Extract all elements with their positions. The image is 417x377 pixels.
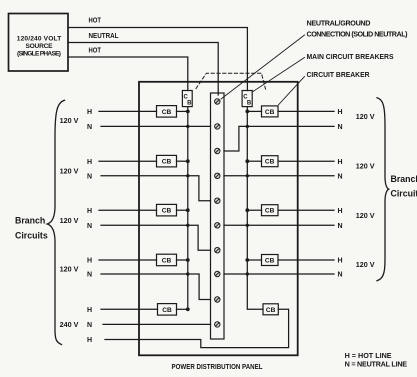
svg-text:B: B xyxy=(187,100,192,106)
svg-text:CB: CB xyxy=(265,208,275,215)
junction dots right bus xyxy=(245,110,249,276)
labels right 120V rows xyxy=(356,112,375,269)
svg-text:Circuits: Circuits xyxy=(15,230,48,240)
wire CB3L to left bus xyxy=(177,209,188,211)
bus screw terminals xyxy=(215,99,220,327)
main circuit breaker CB-B xyxy=(242,91,252,107)
neutral bus bar xyxy=(211,93,225,339)
wire CB5L to left bus xyxy=(177,308,188,310)
svg-text:CB: CB xyxy=(265,109,275,116)
label CB-A text xyxy=(184,94,193,106)
svg-text:120 V: 120 V xyxy=(60,116,79,125)
callout line neutral-ground xyxy=(221,35,305,99)
brace right branch circuits xyxy=(377,98,389,281)
svg-text:120 V: 120 V xyxy=(356,112,375,121)
svg-text:CONNECTION (SOLID NEUTRAL): CONNECTION (SOLID NEUTRAL) xyxy=(307,30,409,39)
svg-text:CB: CB xyxy=(162,208,172,215)
svg-text:H: H xyxy=(87,208,92,215)
svg-text:H: H xyxy=(338,208,343,215)
main circuit breaker CB-A xyxy=(182,91,192,107)
svg-text:Branch: Branch xyxy=(15,215,45,225)
svg-text:N: N xyxy=(87,173,92,180)
svg-text:CB: CB xyxy=(265,159,275,166)
wire right hot bus xyxy=(247,107,263,310)
wire R1 hot out xyxy=(278,110,334,112)
svg-text:H: H xyxy=(87,159,92,166)
wire right bus to CB3R xyxy=(247,209,261,211)
wire L5 second hot under bus to CB5R xyxy=(105,309,289,347)
wire R3 hot out xyxy=(278,209,334,211)
label CB-B text xyxy=(243,94,252,106)
wire L5 neutral to bus screw xyxy=(103,323,211,325)
wire R2 hot out xyxy=(278,160,334,162)
branch circuit breaker CB3L xyxy=(157,204,177,216)
svg-text:N: N xyxy=(338,173,343,180)
wire right bus to CB4R xyxy=(247,259,261,261)
svg-text:N: N xyxy=(87,223,92,230)
svg-text:HOT: HOT xyxy=(89,16,102,25)
label branch circuits right xyxy=(391,174,417,199)
svg-text:H: H xyxy=(338,109,343,116)
callout line main circuit breakers xyxy=(253,58,305,92)
svg-text:Circuits: Circuits xyxy=(391,189,417,199)
svg-text:CB: CB xyxy=(162,109,172,116)
wire L4 hot in xyxy=(99,259,157,261)
svg-text:H: H xyxy=(87,109,92,116)
svg-text:H: H xyxy=(338,159,343,166)
svg-text:NEUTRAL: NEUTRAL xyxy=(89,31,120,40)
svg-text:120 V: 120 V xyxy=(356,211,375,220)
wire L1 hot in xyxy=(99,110,157,112)
label branch circuits left xyxy=(15,215,48,240)
wire R1 neutral jog from bus screw xyxy=(224,126,334,151)
svg-text:N: N xyxy=(338,272,343,279)
wire CB1L to left bus xyxy=(177,110,188,112)
wire R2 neutral from bus screw xyxy=(224,175,334,177)
wire right bus to CB1R xyxy=(247,110,261,112)
wire L4 neutral jog to bus screw xyxy=(101,274,211,300)
labels CB left column xyxy=(162,109,172,314)
svg-text:N: N xyxy=(87,124,92,131)
branch circuit breaker CB2L xyxy=(157,155,177,167)
branch circuit breaker CB3R xyxy=(262,205,279,216)
wire L5 hot in xyxy=(101,308,158,310)
wire R4 neutral from bus screw xyxy=(224,273,334,275)
svg-text:B: B xyxy=(247,100,252,106)
svg-text:CB: CB xyxy=(162,257,172,264)
svg-text:CB: CB xyxy=(265,257,275,264)
svg-text:120 V: 120 V xyxy=(356,260,375,269)
wire L3 neutral jog to bus screw xyxy=(101,225,211,250)
svg-text:N: N xyxy=(338,223,343,230)
wire left hot bus xyxy=(187,107,189,310)
svg-text:H: H xyxy=(87,307,92,314)
branch circuit breaker CB1R xyxy=(262,106,279,117)
svg-text:120 V: 120 V xyxy=(60,265,79,274)
branch circuit breaker CB1L xyxy=(157,106,177,118)
callout line circuit breaker xyxy=(279,77,305,105)
wire L2 hot in xyxy=(99,160,157,162)
svg-text:120/240 VOLT: 120/240 VOLT xyxy=(17,36,62,43)
branch circuit breaker CB2R xyxy=(262,156,279,167)
power distribution panel enclosure xyxy=(139,82,298,356)
svg-text:H: H xyxy=(87,258,92,265)
wire R3 neutral from bus screw xyxy=(224,224,334,226)
wire right bus to CB2R xyxy=(247,160,261,162)
wire L3 hot in xyxy=(99,209,157,211)
svg-text:N: N xyxy=(338,124,343,131)
svg-text:CB: CB xyxy=(162,159,172,166)
brace left branch circuits xyxy=(47,100,64,344)
wire L1 neutral to bus screw xyxy=(101,125,211,127)
svg-text:SOURCE: SOURCE xyxy=(26,43,54,50)
legend hot/neutral xyxy=(345,351,408,369)
wire hot L2 feeder xyxy=(68,57,188,91)
svg-text:H: H xyxy=(87,337,92,344)
branch circuit breaker CB4L xyxy=(157,254,177,266)
svg-text:CB: CB xyxy=(162,307,172,314)
wire R4 hot out xyxy=(278,259,334,261)
wire CB2L to left bus xyxy=(177,160,188,162)
labels left 120V rows xyxy=(60,116,79,329)
labels CB right column xyxy=(265,109,276,314)
svg-text:120 V: 120 V xyxy=(60,216,79,225)
branch circuit breaker CB5L xyxy=(158,304,177,316)
source box 120/240V xyxy=(9,14,69,72)
labels right H/N xyxy=(338,109,343,279)
svg-text:POWER DISTRIBUTION PANEL: POWER DISTRIBUTION PANEL xyxy=(172,362,264,371)
label neutral/ground connection xyxy=(307,19,409,39)
wire hot L1 feeder xyxy=(68,28,247,91)
dashed lasso around main breakers xyxy=(196,73,266,89)
svg-text:120 V: 120 V xyxy=(60,166,79,175)
svg-text:N: N xyxy=(87,322,92,329)
svg-text:CIRCUIT BREAKER: CIRCUIT BREAKER xyxy=(307,70,371,79)
svg-text:120 V: 120 V xyxy=(356,162,375,171)
wire L2 neutral jog to bus screw xyxy=(101,176,211,201)
svg-text:MAIN CIRCUIT BREAKERS: MAIN CIRCUIT BREAKERS xyxy=(307,52,394,61)
label source box xyxy=(17,36,62,58)
wire neutral feeder xyxy=(68,43,218,96)
svg-text:HOT: HOT xyxy=(89,46,102,55)
svg-text:NEUTRAL/GROUND: NEUTRAL/GROUND xyxy=(307,19,371,28)
branch circuit breaker CB4R xyxy=(262,255,279,266)
svg-text:CB: CB xyxy=(266,307,276,314)
junction dots left bus xyxy=(186,110,190,312)
labels left H/N xyxy=(87,109,92,344)
svg-text:(SINGLE PHASE): (SINGLE PHASE) xyxy=(17,51,61,58)
svg-text:N = NEUTRAL LINE: N = NEUTRAL LINE xyxy=(345,360,408,369)
branch circuit breaker CB5R xyxy=(263,304,278,315)
svg-text:H: H xyxy=(338,258,343,265)
svg-text:Branch: Branch xyxy=(391,174,417,184)
svg-text:240 V: 240 V xyxy=(60,320,79,329)
svg-text:N: N xyxy=(87,272,92,279)
wire CB4L to left bus xyxy=(177,259,188,261)
